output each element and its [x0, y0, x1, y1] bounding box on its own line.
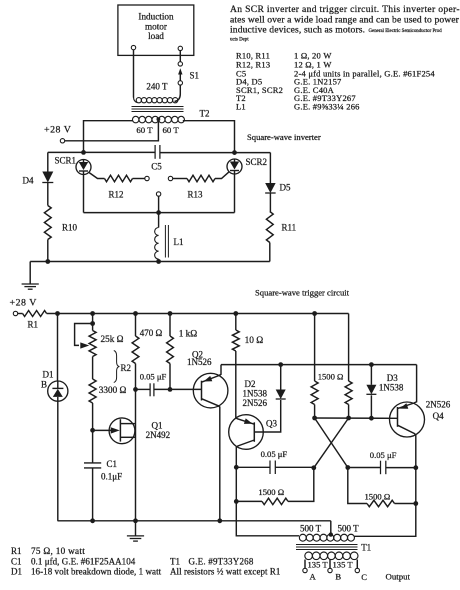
- svg-text:ucts Dept: ucts Dept: [230, 38, 249, 43]
- resistor R11: [266, 193, 296, 262]
- svg-text:135 T: 135 T: [333, 559, 354, 569]
- svg-text:2N492: 2N492: [146, 430, 171, 440]
- resistor 1500 ohm (left vertical): [311, 314, 318, 419]
- node D3 top: [369, 362, 374, 367]
- diode D2: [243, 365, 286, 432]
- svg-text:SCR1: SCR1: [55, 156, 77, 166]
- svg-text:2N526: 2N526: [426, 400, 451, 410]
- svg-text:500 T: 500 T: [338, 524, 360, 534]
- svg-text:75 Ω, 10 watt: 75 Ω, 10 watt: [31, 546, 85, 556]
- T2 center tap node: [157, 117, 161, 121]
- R2 brace and label: [114, 351, 131, 383]
- capacitor C5: [151, 145, 162, 172]
- output terminal B: [328, 568, 342, 581]
- center tap open terminal between R12 R13: [156, 192, 160, 212]
- inverter mid rail: [84, 212, 235, 214]
- svg-text:G.E. #9⅝33¼ 266: G.E. #9⅝33¼ 266: [294, 102, 360, 112]
- svg-text:T2: T2: [200, 109, 210, 119]
- svg-text:Square-wave trigger circuit: Square-wave trigger circuit: [255, 288, 350, 298]
- SCR1: [55, 156, 92, 175]
- svg-text:Output: Output: [386, 571, 411, 581]
- R13 left open terminal: [168, 176, 172, 180]
- transistor Q2 1N526: [187, 350, 228, 521]
- transistor Q4: [390, 365, 451, 468]
- svg-text:1N526: 1N526: [187, 357, 212, 367]
- wire S1 to T2 primary right end: [175, 85, 181, 101]
- svg-text:3300 Ω: 3300 Ω: [99, 385, 127, 395]
- resistor R12: [105, 175, 145, 199]
- node 470 bottom / Q1 B2 junction: [133, 387, 138, 392]
- svg-text:10 Ω: 10 Ω: [245, 336, 264, 346]
- resistor R10: [44, 183, 77, 262]
- Square-wave trigger circuit label: [255, 288, 350, 298]
- trigger top rail: [47, 313, 349, 315]
- svg-text:R11: R11: [282, 223, 297, 233]
- wire +28V to T2 center tap: [65, 121, 159, 141]
- svg-text:1500 Ω: 1500 Ω: [318, 372, 344, 382]
- node R10 bottom junction: [45, 259, 50, 264]
- SCR2: [227, 157, 267, 174]
- output terminal A: [303, 568, 317, 581]
- svg-text:D5: D5: [280, 183, 291, 193]
- node cross left: [311, 465, 316, 470]
- resistor R1: [18, 311, 47, 330]
- wire Q3 collector to T1 primary left: [236, 501, 299, 535]
- node SCR1 anode junction: [81, 150, 86, 155]
- svg-text:L1: L1: [236, 102, 246, 112]
- svg-text:0.1μF: 0.1μF: [101, 472, 122, 482]
- resistor 10 ohm: [232, 314, 263, 418]
- svg-text:B: B: [41, 380, 47, 390]
- +28 V terminal (trigger): [10, 298, 38, 316]
- node Q4 collector cap junction: [413, 465, 418, 470]
- wire T2 secondary right end down to SCR2 anode: [183, 121, 235, 152]
- inverter top rail: [48, 151, 271, 153]
- diode D3: [366, 365, 403, 419]
- node 1500 left top: [312, 311, 317, 316]
- resistor 1500 ohm (Q3 side horizontal): [236, 467, 313, 504]
- svg-text:S1: S1: [190, 71, 200, 81]
- node Q4 collector 1500 junction: [413, 501, 418, 506]
- wire Q4 collector to T1 primary right: [355, 468, 416, 537]
- trigger bottom rail: [58, 520, 331, 522]
- bottom notes left column: [11, 546, 162, 577]
- Square-wave inverter label: [247, 132, 321, 142]
- transformer T2 secondary 60T+60T winding: [132, 116, 184, 135]
- capacitor 0.05uF (Q4 side): [348, 450, 416, 474]
- R12 right open terminal: [145, 176, 149, 180]
- svg-text:R12: R12: [109, 190, 124, 200]
- resistor 1500 ohm (Q4 side horizontal): [348, 468, 416, 507]
- node Q2 collector bottom: [217, 518, 222, 523]
- output terminal C: [355, 568, 367, 582]
- svg-text:Q4: Q4: [433, 411, 444, 421]
- svg-text:A: A: [310, 571, 317, 581]
- svg-text:0.05 μF: 0.05 μF: [140, 371, 167, 381]
- svg-text:Square-wave inverter: Square-wave inverter: [247, 132, 321, 142]
- svg-text:135 T: 135 T: [308, 559, 329, 569]
- svg-text:R10: R10: [62, 223, 78, 233]
- transformer T1 core: [296, 545, 358, 550]
- svg-text:D4: D4: [23, 176, 34, 186]
- svg-text:B: B: [335, 571, 341, 581]
- svg-text:240 T: 240 T: [146, 82, 168, 92]
- bottom notes right column: [170, 557, 280, 577]
- svg-text:R1: R1: [28, 320, 39, 330]
- diode D4: [23, 152, 54, 185]
- diode D5: [265, 153, 291, 193]
- resistor 3300 ohm (R2 lower): [89, 357, 126, 431]
- capacitor 0.05uF (Q1-Q2 coupling): [136, 371, 171, 396]
- svg-text:G.E. #9T33Y268: G.E. #9T33Y268: [189, 557, 254, 567]
- node Q1 B1 bottom: [133, 518, 138, 523]
- svg-text:T1: T1: [361, 543, 371, 553]
- node C1 bottom: [90, 518, 95, 523]
- node D2 top: [278, 362, 283, 367]
- svg-text:0.05 μF: 0.05 μF: [370, 450, 397, 460]
- svg-text:SCR2: SCR2: [246, 157, 268, 167]
- wire SCR2 cathode: [234, 175, 236, 213]
- svg-text:load: load: [148, 31, 164, 41]
- +28 V terminal (inverter): [44, 125, 72, 144]
- resistor R13: [173, 175, 215, 199]
- svg-text:500 T: 500 T: [300, 524, 322, 534]
- cross-coupling wire A: [315, 418, 348, 468]
- svg-text:1N538: 1N538: [243, 388, 268, 398]
- svg-text:0.05 μF: 0.05 μF: [261, 449, 288, 459]
- wire bottom rail to T1 center tap: [330, 521, 332, 534]
- svg-text:R1: R1: [11, 546, 22, 556]
- svg-text:Induction: Induction: [138, 12, 174, 22]
- transformer T2 core: [132, 107, 184, 112]
- wire SCR1 cathode: [83, 175, 85, 213]
- node D3 bottom: [369, 416, 374, 421]
- svg-text:1 kΩ: 1 kΩ: [179, 330, 198, 340]
- node L1 top junction: [156, 210, 161, 215]
- svg-text:470 Ω: 470 Ω: [140, 328, 163, 338]
- svg-text:Q3: Q3: [266, 419, 277, 429]
- diode D1 breakdown: [41, 314, 68, 521]
- svg-text:All resistors ½ watt except R1: All resistors ½ watt except R1: [170, 567, 280, 577]
- wire motor left terminal to T2 primary: [133, 50, 135, 98]
- capacitor 0.05uF (Q3 side): [236, 449, 313, 474]
- node 470ohm top: [133, 311, 138, 316]
- svg-text:0.1 μfd, G.E. #61F25AA104: 0.1 μfd, G.E. #61F25AA104: [31, 557, 136, 567]
- node Q1 emitter junction: [90, 428, 95, 433]
- ground (trigger): [127, 521, 144, 541]
- cross-coupling wire B: [314, 418, 349, 468]
- resistor 470 ohm: [132, 314, 162, 390]
- node R2 top: [90, 311, 95, 316]
- inverter bottom rail: [30, 261, 270, 263]
- flip-flop base rail: [315, 417, 398, 419]
- svg-text:1500 Ω: 1500 Ω: [365, 491, 391, 501]
- transformer T2 primary 240T winding: [134, 82, 178, 103]
- node X left top: [312, 416, 317, 421]
- switch S1: [178, 51, 199, 85]
- node 10ohm top: [233, 311, 238, 316]
- potentiometer 25k (R2 upper): [75, 314, 124, 357]
- wire T2 secondary left end down to SCR1 anode: [84, 121, 133, 151]
- header paragraph: [230, 4, 460, 43]
- SCR2 gate wire: [215, 172, 229, 178]
- svg-text:C1: C1: [11, 557, 22, 567]
- svg-text:60 T: 60 T: [136, 125, 153, 135]
- svg-text:C5: C5: [151, 162, 162, 172]
- inductor L1: [155, 213, 184, 262]
- node 1k bottom / Q2 base: [168, 387, 202, 392]
- svg-text:C1: C1: [107, 459, 118, 469]
- svg-text:T1: T1: [170, 557, 180, 567]
- svg-text:25k Ω: 25k Ω: [101, 334, 124, 344]
- transformer T1 primary 500T+500T: [299, 524, 359, 542]
- svg-text:R2: R2: [121, 363, 132, 373]
- node cross right: [345, 465, 350, 470]
- induction motor load box: [118, 5, 194, 55]
- resistor 1 kohm: [167, 314, 198, 390]
- T2 label: [200, 109, 210, 119]
- node Q3 collector junction: [234, 465, 239, 470]
- svg-text:1N538: 1N538: [379, 383, 404, 393]
- node 1k top: [168, 311, 173, 316]
- capacitor C1: [84, 430, 122, 521]
- svg-text:+28 V: +28 V: [44, 125, 72, 136]
- node X right top: [346, 416, 351, 421]
- svg-text:D1: D1: [43, 370, 54, 380]
- resistor 1500 ohm (right vertical): [318, 314, 352, 419]
- svg-text:16-18 volt breakdown diode, 1: 16-18 volt breakdown diode, 1 watt: [31, 567, 162, 577]
- transistor Q1 2N492: [93, 389, 171, 520]
- svg-text:R13: R13: [188, 190, 204, 200]
- svg-text:2N526: 2N526: [243, 398, 268, 408]
- node L1 bottom junction: [156, 259, 161, 264]
- svg-text:C: C: [361, 572, 367, 582]
- svg-text:1500 Ω: 1500 Ω: [258, 487, 284, 497]
- node SCR2 anode junction: [232, 150, 237, 155]
- SCR1 gate wire: [89, 173, 104, 179]
- svg-text:+28 V: +28 V: [10, 298, 38, 309]
- svg-text:L1: L1: [174, 237, 184, 247]
- Output label: [386, 571, 411, 581]
- ground (inverter): [22, 262, 39, 290]
- node D1 top: [55, 311, 60, 316]
- node Q3 1500 corner: [234, 499, 239, 504]
- transformer T1 secondary 135T+135T: [305, 552, 358, 569]
- svg-text:60 T: 60 T: [163, 125, 180, 135]
- trigger mid rail (emitter rail): [221, 364, 417, 366]
- svg-text:inductive devices, such as mot: inductive devices, such as motors.: [230, 25, 365, 36]
- svg-text:motor: motor: [145, 21, 167, 31]
- parts list: [236, 51, 435, 112]
- T1 label: [361, 543, 371, 553]
- svg-text:D1: D1: [11, 567, 22, 577]
- transistor Q3: [229, 415, 278, 468]
- svg-text:General Electric Semiconductor: General Electric Semiconductor Prod: [369, 29, 443, 34]
